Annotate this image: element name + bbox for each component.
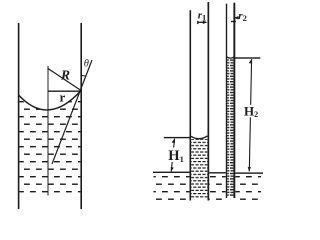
reservoir liquid dashes between tubes — [209, 175, 226, 201]
r2 leader arrow — [234, 16, 239, 19]
center axis line — [47, 66, 49, 196]
svg-text:θ: θ — [84, 59, 89, 70]
label H2 — [244, 104, 259, 119]
H2 reference line — [234, 57, 260, 58]
svg-text:R: R — [60, 68, 70, 83]
reservoir surface line right segment — [235, 172, 263, 173]
radius line R — [48, 69, 81, 91]
left tube left wall — [18, 23, 20, 209]
tube 2 right wall — [233, 3, 235, 198]
tangent line through contact point — [52, 60, 92, 164]
left tube right wall — [80, 23, 82, 209]
reservoir surface line left segment — [153, 172, 190, 173]
liquid fill under meniscus (left tube) — [19, 91, 80, 197]
tube 1 right wall — [208, 2, 210, 201]
reservoir liquid dashes left of tube 1 — [154, 175, 190, 201]
tube 1 left wall — [190, 10, 192, 200]
svg-text:r: r — [60, 90, 66, 105]
tube 2 liquid column fill — [227, 58, 233, 196]
tube 1 liquid column fill — [191, 139, 207, 199]
tube radius line r — [48, 90, 81, 92]
svg-text:r1: r1 — [198, 10, 207, 23]
reservoir liquid dashes right of tube 2 — [235, 175, 261, 201]
H1 dimension arrow — [171, 138, 175, 171]
tube 1 meniscus — [191, 136, 207, 139]
r1 dimension arrow — [198, 21, 208, 25]
svg-text:r2: r2 — [238, 10, 247, 23]
reservoir surface line middle segment — [209, 172, 226, 173]
H1 reference line — [164, 137, 190, 138]
label H1 — [167, 148, 184, 165]
tube 2 left wall — [226, 4, 227, 198]
r2 center tick — [231, 21, 236, 22]
H2 dimension arrow — [248, 59, 252, 172]
tube 2 column top line — [227, 57, 235, 58]
contact angle arc — [81, 74, 86, 77]
meniscus arc — [19, 91, 81, 110]
